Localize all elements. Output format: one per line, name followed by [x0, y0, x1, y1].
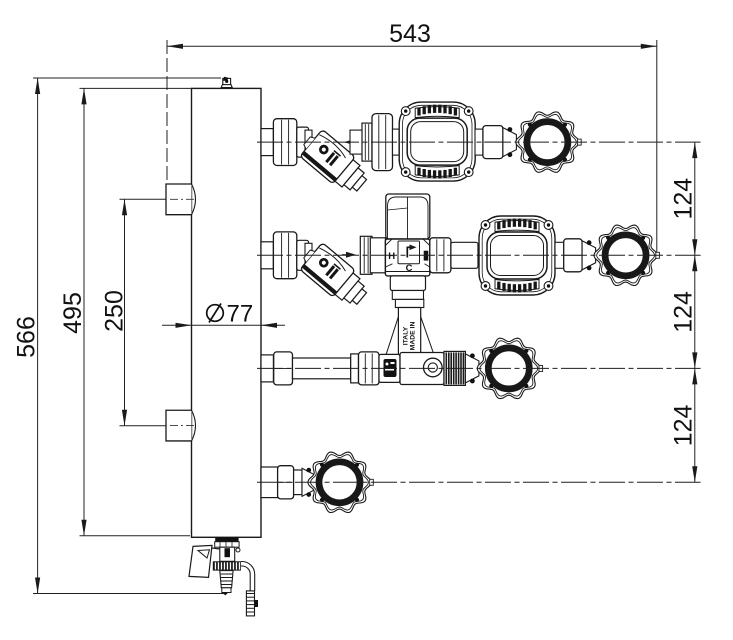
svg-text:495: 495	[59, 292, 87, 334]
svg-text:124: 124	[670, 291, 698, 333]
svg-text:124: 124	[670, 178, 698, 220]
svg-text:ITALY: ITALY	[403, 326, 410, 345]
svg-text:C: C	[406, 263, 413, 274]
svg-text:566: 566	[13, 316, 41, 358]
svg-text:543: 543	[389, 20, 431, 48]
svg-text:77: 77	[227, 301, 254, 328]
svg-text:MADE IN: MADE IN	[410, 322, 417, 351]
svg-text:250: 250	[101, 290, 129, 332]
svg-text:124: 124	[670, 404, 698, 446]
svg-text:H: H	[388, 251, 395, 262]
